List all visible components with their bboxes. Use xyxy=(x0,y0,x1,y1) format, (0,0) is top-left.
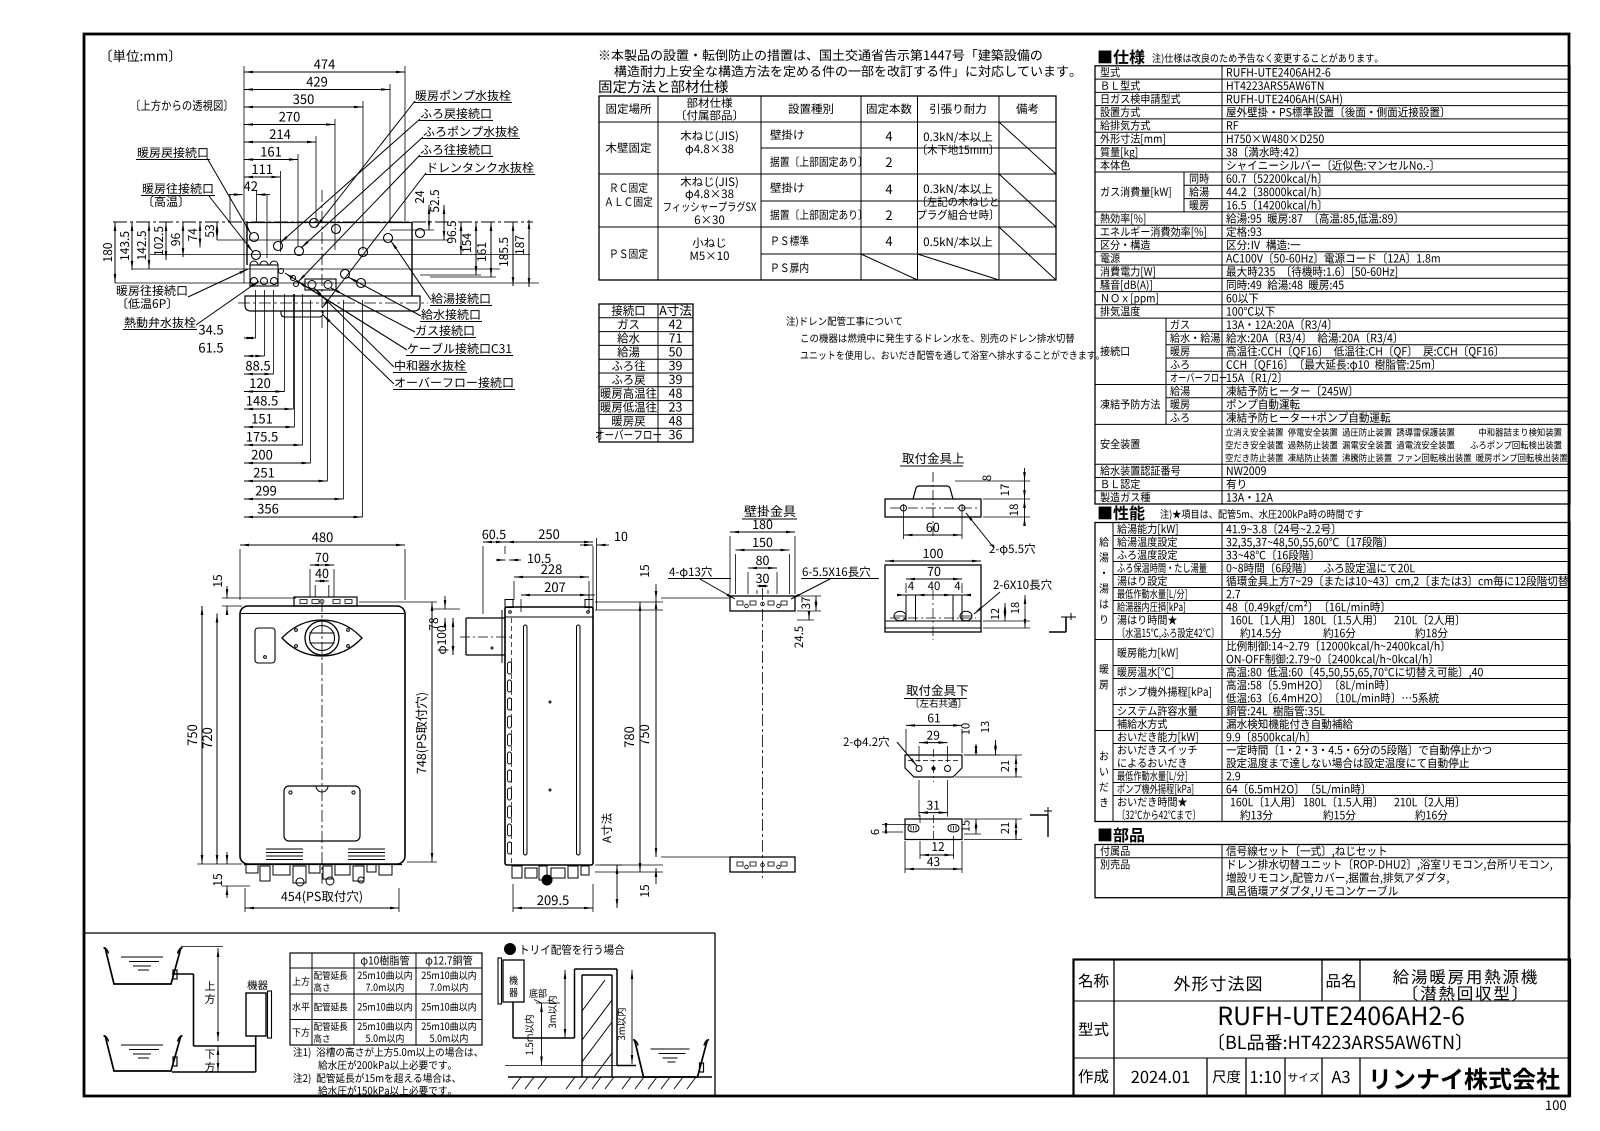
port 1 xyxy=(252,251,261,260)
tori ground ref xyxy=(505,1065,634,1067)
label cable port xyxy=(408,343,511,354)
dimension phi100 xyxy=(452,618,454,655)
spec gas rows xyxy=(1095,171,1570,173)
piping table frame xyxy=(290,953,482,1045)
port 11 xyxy=(291,276,296,281)
tray centerline xyxy=(238,302,428,304)
label heating supply high xyxy=(143,183,213,194)
parts table frame xyxy=(1095,845,1570,898)
perf group lines xyxy=(1095,639,1113,641)
parts row 1 xyxy=(1100,846,1129,856)
side duct xyxy=(466,617,505,619)
spec connection group xyxy=(1095,317,1570,319)
dimension 454 xyxy=(245,907,399,909)
dimension 720 front xyxy=(216,614,218,865)
title block frame xyxy=(1074,960,1571,1097)
tori pipe xyxy=(512,1002,514,1038)
dimension 40 front xyxy=(315,580,329,582)
pipe lower xyxy=(255,1046,257,1072)
port 10 xyxy=(416,229,425,238)
perf row 最低作動水量[L/分] xyxy=(1117,771,1186,782)
wall bracket centerline xyxy=(762,588,764,878)
perf table frame xyxy=(1095,523,1570,822)
title size value xyxy=(1331,1071,1349,1084)
dimension 21 b1 xyxy=(1001,761,1009,772)
perf row 〔水温15℃,ふろ設定42℃〕 xyxy=(1123,627,1214,639)
dimension 299 bottom xyxy=(244,498,344,500)
label drain tank xyxy=(430,162,534,173)
perf row ポンプ機外揚程[kPa] xyxy=(1117,783,1193,794)
label furo supply xyxy=(421,144,491,155)
kiki box xyxy=(246,993,266,1036)
perf row ふろ温度設定 xyxy=(1117,550,1177,560)
unit note xyxy=(109,49,173,62)
tori ground xyxy=(508,1076,712,1078)
dimension 180 bracket xyxy=(730,531,795,533)
dimension 480 xyxy=(240,544,405,546)
dimension 24 right xyxy=(428,205,430,230)
extension h1 xyxy=(150,254,530,256)
connection size table xyxy=(599,304,693,442)
label furo pump drain xyxy=(424,126,519,137)
small tray xyxy=(281,311,323,317)
dimension 143.5 xyxy=(131,222,133,270)
bracket top dims right2 xyxy=(991,608,999,619)
side louver 1 xyxy=(508,680,512,692)
port 4 xyxy=(310,219,319,228)
port 7 xyxy=(341,270,350,279)
bracket top front xyxy=(885,499,981,517)
dimension 12 plate2 xyxy=(920,854,954,856)
label pump drain xyxy=(416,90,511,101)
label 4.2 holes xyxy=(843,736,889,748)
bracket bottom profile icon xyxy=(1030,814,1048,816)
tori title xyxy=(505,944,516,955)
dimension 102.5 xyxy=(165,222,167,260)
drain note xyxy=(786,316,901,327)
dimension 161 right xyxy=(490,222,492,277)
spec freeze group xyxy=(1095,384,1570,386)
side louver 5 xyxy=(508,752,512,764)
piping note2 xyxy=(293,1073,455,1084)
dimension 10 side xyxy=(580,544,593,546)
dimension 154 right xyxy=(475,222,477,275)
perf row 湯はり設定 xyxy=(1117,576,1167,586)
dimension 214 xyxy=(244,141,316,143)
dimension 78 xyxy=(432,608,460,610)
kiki label xyxy=(247,980,267,990)
product note line1 xyxy=(600,49,1042,61)
dimension 30 bracket xyxy=(757,585,768,587)
spec row 日ガス検申請型式 xyxy=(1095,91,1570,93)
spec row 給水装置認証番号 xyxy=(1095,463,1570,465)
label 5.5 holes xyxy=(989,543,1035,555)
label overflow port xyxy=(395,377,512,388)
side groove2 xyxy=(577,625,581,855)
bracket top profile icon xyxy=(1049,631,1066,633)
dimension 31 xyxy=(919,812,948,814)
piping note1 xyxy=(293,1047,477,1058)
label 4-13 holes xyxy=(669,566,712,578)
extension h6 xyxy=(420,274,481,276)
wall bracket bottom plate xyxy=(730,857,795,872)
port 3 xyxy=(295,247,304,256)
fixing row rc xyxy=(611,182,647,193)
dimension 350 xyxy=(244,106,363,108)
fixing row wood xyxy=(606,142,651,153)
front fan xyxy=(282,620,362,656)
label 6x10 holes xyxy=(993,579,1051,590)
piping box xyxy=(84,932,715,934)
dim 3m left xyxy=(548,996,557,1028)
perf row によるおいだき xyxy=(1118,758,1186,768)
dimension 10 13 xyxy=(961,723,969,734)
piping table row2 xyxy=(292,1002,309,1011)
dim jouhou xyxy=(205,981,215,990)
title name label xyxy=(1079,973,1109,987)
dim 3m right xyxy=(617,1008,626,1040)
dimension 70 bracket xyxy=(906,578,962,580)
dimension 185.5 right xyxy=(512,222,514,286)
port 9 xyxy=(384,234,393,243)
dimension 42 xyxy=(229,194,243,196)
dimension 10.5 xyxy=(497,559,506,561)
dimension 61.5 bottom xyxy=(244,355,265,357)
bracket top dims right xyxy=(1024,468,1026,525)
dimension 780 xyxy=(639,602,641,872)
dimension 356 bottom xyxy=(244,516,363,518)
dimension 250 xyxy=(505,541,593,543)
spec row 製造ガス種 xyxy=(1095,490,1570,492)
spec heading xyxy=(1099,49,1145,64)
label gas port xyxy=(416,325,473,336)
dimension 111 xyxy=(244,176,281,178)
perf row 給湯能力[kW] xyxy=(1117,524,1177,535)
front centerline xyxy=(321,600,323,884)
wall bracket title xyxy=(744,505,795,517)
dimension 148.5 bottom xyxy=(244,408,294,410)
parts heading xyxy=(1099,828,1144,843)
title company xyxy=(1373,1068,1560,1091)
fixing diagonals xyxy=(999,122,1056,174)
top view title xyxy=(137,100,226,112)
fixing row ps xyxy=(611,248,647,259)
product note line2 xyxy=(614,65,1073,77)
dimension A xyxy=(616,865,618,908)
bracket bottom title xyxy=(906,684,967,696)
label heating supply low xyxy=(117,285,187,296)
dimension 29 xyxy=(919,742,948,744)
wall bracket top plate xyxy=(730,596,795,611)
spec row 電源 xyxy=(1095,251,1570,253)
dimension 34.5 bottom xyxy=(244,337,256,339)
dimension 207 xyxy=(521,594,589,596)
unit top edge xyxy=(247,222,412,224)
dimension 175.5 bottom xyxy=(244,444,303,446)
side louver 0 xyxy=(508,662,512,674)
dimension 15 top front xyxy=(226,586,228,598)
extension h7 xyxy=(430,276,496,278)
dimension 187 right xyxy=(528,220,530,287)
spec row 外形寸法[mm] xyxy=(1095,131,1570,133)
piping table header xyxy=(361,955,409,966)
dimension 15 bottom front xyxy=(226,852,228,864)
tori kiki box xyxy=(503,960,524,1002)
side groove1 xyxy=(524,625,528,855)
side dots xyxy=(509,611,512,614)
spec row 質量[kg] xyxy=(1095,145,1570,147)
title scale value xyxy=(1251,1071,1281,1084)
spec row 設置方式 xyxy=(1095,105,1570,107)
perf row 〔32℃から42℃まで〕 xyxy=(1123,809,1195,820)
label 5.5x16 holes xyxy=(803,566,871,577)
dim 1.5m xyxy=(525,1015,534,1054)
dimension 151 bottom xyxy=(244,426,295,428)
dimension 180 xyxy=(114,222,116,283)
dimension 120 bottom xyxy=(244,391,285,393)
side louver 7 xyxy=(508,788,512,800)
perf row システム許容水量 xyxy=(1118,706,1197,716)
label furo return xyxy=(421,108,491,119)
dimension 142.5 xyxy=(148,222,150,269)
side louver 10 xyxy=(508,842,512,854)
fixing table frame xyxy=(599,96,1056,280)
dimension 750 front xyxy=(201,606,203,864)
unit edge left xyxy=(246,222,248,265)
dimension 270 xyxy=(244,124,335,126)
page number xyxy=(1546,1100,1566,1110)
dimension 200 bottom xyxy=(244,462,311,464)
extension h5 xyxy=(390,229,434,231)
spec row 本体色 xyxy=(1095,158,1570,160)
dimension 748 xyxy=(431,602,433,862)
perf row 給湯器内圧損[kPa] xyxy=(1117,602,1185,613)
front top cap line xyxy=(241,613,404,615)
piping table row1 xyxy=(292,977,309,986)
side inner line xyxy=(511,618,513,864)
dimension 750 side xyxy=(655,600,657,857)
port 8 xyxy=(357,279,366,288)
dimension 15 tr xyxy=(640,565,649,577)
perf row 給湯温度設定 xyxy=(1117,537,1177,547)
tori wall xyxy=(581,975,583,1077)
front bottom panel xyxy=(284,786,360,841)
dimension 61 xyxy=(906,724,962,726)
dimension 429 xyxy=(244,89,390,91)
side bottom valves xyxy=(512,866,522,878)
front top plate xyxy=(294,597,357,606)
title product name xyxy=(1393,969,1537,984)
dimension 80 bracket xyxy=(748,567,777,569)
front view outline xyxy=(240,606,405,864)
spec row エネルギー消費効率[%] xyxy=(1095,224,1570,226)
title hinmei xyxy=(1327,973,1355,987)
label thermal valve drain xyxy=(125,317,196,328)
dimension 100 xyxy=(885,560,981,562)
spec row 型式 xyxy=(1100,67,1119,77)
fixing table title xyxy=(599,80,728,93)
bracket bottom plate1 xyxy=(905,755,962,777)
dimension 228 xyxy=(514,576,589,578)
center dash line xyxy=(321,190,323,330)
perf row 湯はり時間★ xyxy=(1117,615,1177,625)
title model label xyxy=(1079,1022,1109,1036)
label teibu xyxy=(529,989,546,998)
centerline top xyxy=(113,221,533,223)
title model value xyxy=(1220,1006,1464,1025)
tub upper xyxy=(105,948,181,985)
label neutralizer drain xyxy=(395,360,466,371)
side louver 6 xyxy=(508,770,512,782)
front sticker xyxy=(255,628,275,663)
perf row 暖房能力[kW] xyxy=(1118,647,1178,658)
spec row 消費電力[W] xyxy=(1095,264,1570,266)
bracket ext lines xyxy=(661,597,730,599)
front louver right xyxy=(348,848,385,850)
bracket top title xyxy=(902,452,964,464)
dimension 37 xyxy=(815,596,817,611)
extension h3 xyxy=(115,282,539,284)
unit edge right xyxy=(411,222,413,296)
front bottom valves xyxy=(246,864,258,873)
dimension 60 bracket xyxy=(904,534,963,536)
spec table frame xyxy=(1095,66,1570,504)
bracket bottom plate2 xyxy=(905,819,962,840)
spec row 区分・構造 xyxy=(1095,237,1570,239)
parts row 2 xyxy=(1100,859,1129,869)
dimension 209.5 xyxy=(513,907,593,909)
side view outline xyxy=(505,607,593,865)
port 12 xyxy=(294,282,299,287)
fixing table header xyxy=(607,103,652,114)
dims plate2 xyxy=(871,829,879,834)
side louver 2 xyxy=(508,698,512,710)
piping table row3 xyxy=(292,1028,309,1037)
dim kahou xyxy=(205,1050,215,1059)
title block verticals xyxy=(1113,960,1115,1097)
dimension 474 xyxy=(244,71,405,73)
dimension 150 bracket xyxy=(736,549,790,551)
side top cap xyxy=(505,616,593,618)
dimension 60.5 xyxy=(483,541,505,543)
extension h4 xyxy=(217,239,449,241)
dimension 251 bottom xyxy=(244,480,328,482)
extension lines top xyxy=(243,66,245,283)
dimension 70 front xyxy=(310,564,334,566)
drain tray xyxy=(245,296,420,311)
dimension 15 br xyxy=(640,885,649,897)
port 6 xyxy=(359,248,368,257)
title date value xyxy=(1131,1071,1189,1084)
dimension 96 xyxy=(182,222,184,257)
extension comb bottom xyxy=(255,290,257,338)
title date label xyxy=(1079,1069,1109,1083)
side louver 9 xyxy=(508,824,512,836)
spec col divider xyxy=(1221,66,1223,504)
perf row 最低作動水量[L/分] xyxy=(1117,589,1186,600)
port 0 xyxy=(250,233,259,242)
title size label xyxy=(1288,1072,1319,1082)
dimension 88.5 bottom xyxy=(244,373,274,375)
port 5 xyxy=(332,225,341,234)
tub lower xyxy=(105,1036,181,1072)
spec row 排気温度 xyxy=(1095,304,1570,306)
perf row おいだき能力[kW] xyxy=(1118,732,1198,743)
dimension 24.5 xyxy=(808,611,810,620)
port 2 xyxy=(274,242,283,251)
dimension 96.5 right xyxy=(460,222,462,255)
dimension 52.5 right xyxy=(443,205,445,240)
gas box xyxy=(305,279,336,290)
tori tub xyxy=(635,1040,708,1078)
connector block xyxy=(250,265,278,286)
perf heading xyxy=(1099,505,1145,520)
perf row おいだきスイッチ xyxy=(1118,745,1197,755)
spec row 騒音[dB(A)] xyxy=(1095,277,1570,279)
dimension 4 40 4 xyxy=(898,594,970,596)
spec row 熱効率[%] xyxy=(1095,211,1570,213)
spec row 給排気方式 xyxy=(1095,118,1570,120)
title scale label xyxy=(1212,1070,1240,1083)
perf row ポンプ機外揚程[kPa] xyxy=(1118,686,1211,697)
side louver 3 xyxy=(508,716,512,728)
front louver left xyxy=(266,848,303,850)
perf row ふろ保温時間・たし湯量 xyxy=(1117,563,1206,573)
label heating return xyxy=(138,147,208,158)
dimension 161 xyxy=(244,159,298,161)
label hot water port xyxy=(431,293,489,304)
spec row ＮＯｘ[ppm] xyxy=(1095,291,1570,293)
spec safety xyxy=(1095,423,1570,425)
dimension 43 xyxy=(905,868,962,870)
pipe upper xyxy=(172,973,194,975)
side louver 4 xyxy=(508,734,512,746)
spec row ＢＬ型式 xyxy=(1095,78,1570,80)
dimension 74 xyxy=(199,222,201,248)
spec row ＢＬ認定 xyxy=(1095,477,1570,479)
title name value xyxy=(1174,976,1261,992)
perf row 補給水方式 xyxy=(1117,719,1167,729)
label water supply port xyxy=(421,309,479,320)
bracket top view xyxy=(885,565,981,632)
side louver 8 xyxy=(508,806,512,818)
perf row 暖房温水[℃] xyxy=(1118,667,1173,678)
extension h2 xyxy=(132,268,500,270)
perf row おいだき時間★ xyxy=(1118,797,1187,807)
dimension 53 xyxy=(216,222,218,240)
